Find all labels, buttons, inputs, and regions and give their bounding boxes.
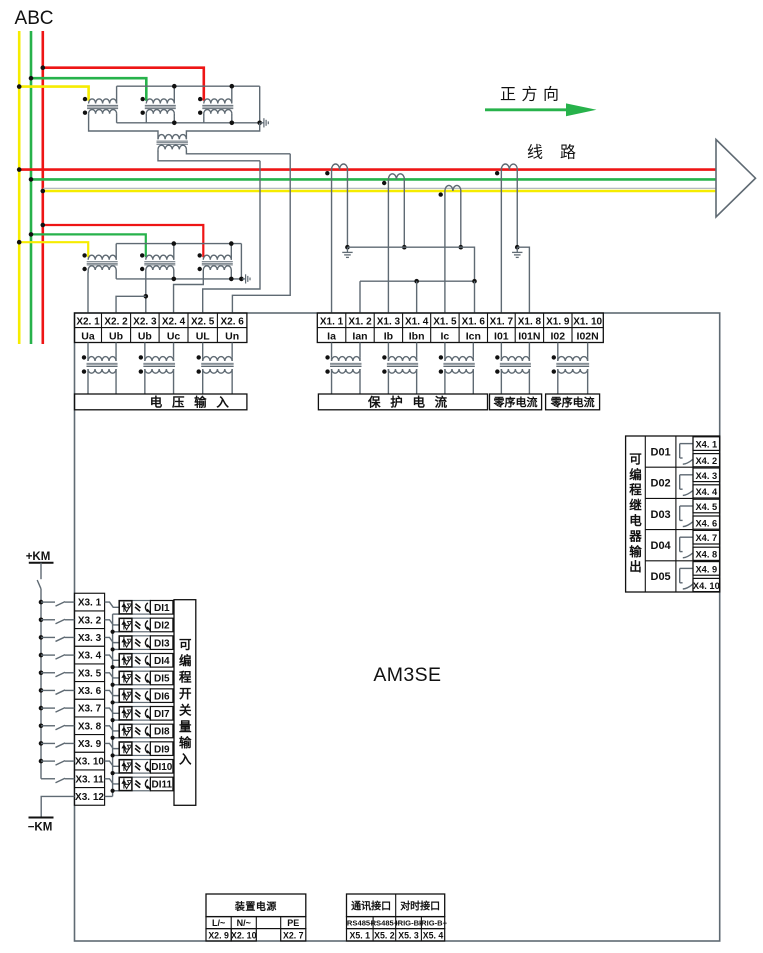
svg-text:Uc: Uc: [167, 330, 181, 342]
optocoupler DI10: [119, 760, 150, 774]
terminal X3.4: [74, 646, 104, 661]
svg-text:零序电流: 零序电流: [493, 395, 538, 409]
svg-text:X1. 6: X1. 6: [462, 316, 486, 327]
wire DI9 input: [105, 743, 120, 748]
svg-text:−KM: −KM: [28, 822, 53, 834]
svg-text:X1. 8: X1. 8: [518, 316, 542, 327]
wire DI common return vertical: [112, 614, 114, 796]
svg-text:装置电源: 装置电源: [234, 900, 277, 913]
terminal X3.7: [74, 699, 104, 714]
svg-text:X4. 5: X4. 5: [695, 502, 717, 512]
switch contact row 3: [41, 637, 74, 642]
junction DI11 return: [111, 789, 115, 793]
internal transformer CT I02: [552, 343, 590, 395]
junction T6 secondary: [172, 277, 177, 282]
terminal X3.12: [74, 788, 104, 803]
svg-text:程: 程: [179, 670, 192, 685]
svg-text:方: 方: [521, 86, 537, 104]
svg-text:D03: D03: [651, 509, 671, 521]
wire top green branch to PT2: [31, 78, 146, 101]
svg-text:对时接口: 对时接口: [400, 900, 440, 913]
svg-text:编: 编: [629, 467, 642, 482]
wire top-bank primary bus: [117, 85, 260, 87]
device power block 装置电源: [206, 894, 306, 917]
wire Un: aux PT to X2.6: [232, 154, 290, 313]
terminal X4.10: [693, 578, 720, 591]
relay D04: [651, 537, 693, 558]
svg-text:向: 向: [543, 86, 559, 104]
svg-text:X3. 9: X3. 9: [78, 739, 102, 750]
junction top green branch: [29, 76, 34, 81]
switch contact row 5: [41, 672, 74, 677]
junction DI3 return: [111, 647, 115, 651]
label box DI8: [150, 724, 173, 738]
power mid row cells: [206, 917, 306, 929]
voltage transformer T5 (busbar PT): [82, 244, 117, 279]
terminal X4.7: [693, 530, 720, 544]
wire Ub: T6 secondary to X2.3: [145, 272, 147, 313]
optocoupler DI1: [119, 601, 150, 615]
wire DI6 input: [105, 690, 120, 695]
svg-text:电: 电: [412, 395, 425, 410]
optocoupler DI3: [119, 636, 150, 650]
switch contact row 9: [41, 743, 74, 748]
svg-text:X2. 3: X2. 3: [133, 316, 157, 327]
junction T7 primary: [229, 241, 234, 246]
junction DI9 return: [111, 753, 115, 757]
voltage transformer T2 (line PT): [141, 86, 176, 123]
wire DI5 input: [105, 673, 120, 678]
terminal X4.3: [693, 468, 720, 482]
optocoupler DI9: [119, 742, 150, 756]
terminal X2.7: [281, 929, 306, 941]
terminal X4.9: [693, 562, 720, 576]
svg-text:X3. 1: X3. 1: [78, 598, 102, 609]
ground top-bank: [261, 118, 269, 127]
internal transformer PT Ua: [82, 343, 118, 395]
label box DI9: [150, 742, 173, 756]
wire Ia: CT1 to X1.1: [331, 170, 333, 313]
svg-text:X1. 5: X1. 5: [433, 316, 457, 327]
device AM3SE outline: [75, 313, 720, 941]
label box zero-seq current 2 零序电流: [546, 394, 600, 410]
svg-text:RS485-: RS485-: [347, 919, 373, 928]
wire CT2 return: [403, 179, 405, 247]
svg-text:器: 器: [628, 529, 642, 543]
wire DI10 input: [105, 761, 120, 766]
svg-text:Un: Un: [225, 330, 239, 342]
wire CT common line upper: [347, 247, 474, 281]
svg-text:DI2: DI2: [154, 621, 170, 632]
junction bus B tap: [29, 177, 34, 182]
svg-text:Ua: Ua: [81, 330, 95, 342]
label box DI11: [150, 777, 173, 791]
svg-text:X2. 9: X2. 9: [208, 930, 229, 940]
junction DI7 return: [111, 718, 115, 722]
svg-text:路: 路: [560, 144, 576, 162]
svg-text:L/~: L/~: [212, 918, 225, 928]
wire DI8 input: [105, 726, 120, 731]
wire DI1 return stub: [113, 613, 120, 615]
svg-text:DI10: DI10: [151, 762, 173, 773]
wire Ic: CT3 to X1.5: [444, 191, 446, 313]
wire yellow tap to measuring PT bank: [19, 242, 88, 257]
wire phase B vertical (green): [30, 31, 33, 344]
wire CT1 return: [346, 170, 348, 248]
wire DI5 return stub: [113, 684, 120, 686]
junction Icn: [472, 279, 477, 284]
terminal strip X3 frame: [74, 593, 104, 805]
relay D01: [651, 444, 693, 465]
wire Ian: to X1.2: [359, 281, 361, 313]
optocoupler DI8: [119, 724, 150, 738]
svg-text:通讯接口: 通讯接口: [351, 900, 391, 913]
junction T2 primary: [172, 84, 177, 89]
svg-text:IRIG-B+: IRIG-B+: [419, 919, 448, 928]
junction T2 secondary: [172, 121, 177, 126]
svg-text:X1. 1: X1. 1: [320, 316, 344, 327]
svg-text:DI6: DI6: [154, 691, 170, 702]
svg-text:X1. 9: X1. 9: [546, 316, 570, 327]
svg-text:输: 输: [629, 544, 642, 559]
svg-text:X5. 3: X5. 3: [398, 930, 419, 940]
terminal X4.5: [693, 499, 720, 513]
terminal X3.1: [78, 598, 102, 609]
current transformer CT2: [382, 174, 404, 185]
wire X3.12 to -KM: [41, 796, 74, 817]
wire DI11 return stub: [113, 790, 120, 792]
junction DI8 return: [111, 736, 115, 740]
svg-text:Ian: Ian: [352, 330, 367, 342]
junction DI6 return: [111, 700, 115, 704]
internal transformer CT Ia: [325, 343, 361, 395]
relay output block frame 可编程继电器输出: [626, 436, 720, 592]
arrow positive direction: [485, 103, 597, 116]
switch contact row 11: [41, 778, 74, 783]
svg-text:PE: PE: [287, 918, 299, 928]
optocoupler DI7: [119, 707, 150, 721]
junction Ibn: [414, 279, 419, 284]
svg-text:零序电流: 零序电流: [550, 395, 595, 409]
svg-text:编: 编: [179, 653, 192, 668]
terminal X4.1: [693, 437, 720, 451]
terminal X4.8: [693, 547, 720, 560]
internal transformer CT Ic: [439, 343, 475, 395]
wire top red branch to PT3: [43, 68, 204, 101]
label box programmable switch input 可编程开关量输入: [174, 600, 196, 806]
svg-text:B: B: [27, 8, 40, 29]
wire green tap to measuring PT bank: [31, 234, 146, 257]
junction DI2 return: [111, 630, 115, 634]
ground CT common: [342, 247, 352, 257]
current transformer CT1: [325, 164, 347, 175]
svg-text:量: 量: [179, 720, 192, 734]
wire bus phase C (yellow line): [43, 190, 716, 193]
svg-text:X4. 4: X4. 4: [695, 487, 718, 497]
relay D02: [651, 475, 693, 496]
junction top-bank ground node: [257, 121, 262, 126]
current transformer CT3: [439, 185, 461, 196]
svg-text:出: 出: [629, 559, 642, 574]
svg-text:X2. 6: X2. 6: [220, 316, 244, 327]
junction T6 primary: [172, 241, 177, 246]
junction DI feeder row 3: [39, 635, 44, 640]
relay D03: [651, 506, 693, 527]
svg-text:X3. 8: X3. 8: [78, 721, 102, 732]
svg-text:DI5: DI5: [154, 674, 170, 685]
svg-text:DI3: DI3: [154, 638, 170, 649]
svg-text:X2. 2: X2. 2: [104, 316, 128, 327]
svg-text:X4. 3: X4. 3: [695, 471, 717, 481]
svg-text:+KM: +KM: [26, 551, 51, 563]
wire bus phase A (red line): [19, 168, 716, 171]
svg-text:可: 可: [629, 452, 642, 466]
label box DI1: [150, 601, 173, 615]
svg-text:流: 流: [435, 395, 448, 410]
svg-text:Icn: Icn: [466, 330, 481, 342]
junction Ub branch: [144, 294, 149, 299]
svg-text:X4. 1: X4. 1: [695, 440, 717, 450]
junction DI feeder row 9: [39, 741, 44, 746]
terminal X3.3: [74, 629, 104, 644]
svg-text:X4. 8: X4. 8: [695, 550, 717, 560]
svg-text:A: A: [15, 8, 28, 29]
junction DI feeder row 1: [39, 600, 44, 605]
terminal X3.10: [74, 752, 104, 767]
junction T3 secondary: [230, 121, 235, 126]
terminal X2.9: [206, 929, 231, 941]
svg-text:X2. 1: X2. 1: [76, 316, 100, 327]
terminal X4.4: [693, 485, 720, 498]
svg-text:程: 程: [629, 482, 642, 497]
junction DI feeder row 5: [39, 670, 44, 675]
svg-text:X1. 10: X1. 10: [573, 316, 602, 327]
wire lower-bank secondary bus: [116, 278, 241, 280]
wire DI9 return stub: [113, 754, 120, 756]
internal transformer PT Ub: [139, 343, 175, 395]
comm mid row cells: [347, 917, 445, 929]
junction bus A tap: [17, 167, 22, 172]
wire DI2 return stub: [113, 631, 120, 633]
wire Ua: T5 secondary to X2.1: [87, 272, 89, 313]
wire CT4 return: [516, 170, 518, 248]
svg-text:X4. 9: X4. 9: [695, 564, 717, 574]
terminal X3.5: [74, 664, 104, 679]
svg-text:X1. 2: X1. 2: [348, 316, 372, 327]
wire DI6 return stub: [113, 701, 120, 703]
switch contact row 8: [41, 725, 74, 730]
relay D05: [651, 568, 693, 589]
svg-text:Ub: Ub: [138, 330, 152, 342]
wire top yellow branch to PT1: [19, 87, 88, 101]
svg-text:X4. 10: X4. 10: [693, 581, 720, 591]
svg-text:X3. 3: X3. 3: [78, 633, 102, 644]
wire DI4 input: [105, 655, 120, 660]
svg-text:关: 关: [179, 702, 192, 717]
svg-text:压: 压: [172, 396, 185, 410]
terminal strip X1 current inputs: [317, 313, 603, 343]
label programmable relay output vertical text: [628, 452, 642, 574]
optocoupler DI6: [119, 689, 150, 703]
junction top red branch: [41, 65, 46, 70]
wire I01: CT4 to X1.7: [500, 170, 502, 313]
label box DI2: [150, 618, 173, 632]
svg-text:DI9: DI9: [154, 744, 170, 755]
wire lower-bank primary bus: [116, 243, 241, 245]
wire CT neutral line lower: [360, 280, 475, 282]
svg-text:开: 开: [179, 687, 192, 701]
terminal strip X2 voltage inputs: [75, 313, 247, 343]
voltage transformer T4 (aux line PT): [157, 135, 188, 152]
wire Ibn: to X1.4: [416, 281, 418, 313]
label box DI6: [150, 689, 173, 703]
junction CT4 return / ground: [515, 245, 520, 250]
ground lower-bank: [242, 274, 250, 283]
junction DI feeder row 7: [39, 706, 44, 711]
svg-text:X4. 7: X4. 7: [695, 533, 717, 543]
svg-text:X3. 6: X3. 6: [78, 686, 102, 697]
junction top yellow branch: [17, 84, 22, 89]
switch contact row 2: [41, 619, 74, 624]
current transformer CT4: [495, 164, 517, 175]
terminal X3.2: [74, 611, 104, 626]
junction CT2 return: [402, 245, 407, 250]
svg-text:I01: I01: [494, 330, 509, 342]
svg-text:X2. 4: X2. 4: [162, 316, 186, 327]
wire Ub branch to X2.2: [116, 296, 146, 313]
terminal X3.6: [74, 682, 104, 697]
svg-text:Ia: Ia: [327, 330, 336, 342]
svg-text:C: C: [40, 8, 54, 29]
junction T3 primary: [230, 84, 235, 89]
svg-text:X2. 10: X2. 10: [231, 930, 257, 940]
switch contact row 10: [41, 761, 74, 766]
bar +KM rail: [29, 562, 54, 564]
voltage transformer T7 (busbar PT): [198, 244, 233, 279]
svg-text:X5. 4: X5. 4: [423, 930, 444, 940]
label box DI4: [150, 654, 173, 668]
wire DI3 return stub: [113, 648, 120, 650]
internal transformer PT UL: [197, 343, 234, 395]
bar -KM rail: [29, 817, 54, 819]
switch contact row 1: [41, 602, 74, 607]
svg-text:X3. 10: X3. 10: [75, 757, 104, 768]
svg-text:N/~: N/~: [237, 918, 251, 928]
ground CT4: [512, 247, 522, 257]
wire DI8 return stub: [113, 737, 120, 739]
voltage transformer T1 (line PT): [83, 86, 118, 123]
internal transformer CT I01: [495, 343, 531, 395]
wire DI11 input: [105, 779, 120, 784]
voltage transformer T6 (busbar PT): [140, 244, 175, 279]
terminal X3.8: [74, 717, 104, 732]
voltage transformer T3 (line PT): [198, 86, 233, 123]
svg-text:I02: I02: [550, 330, 565, 342]
svg-text:DI8: DI8: [154, 727, 170, 738]
label box DI10: [150, 760, 173, 774]
wire UL: aux PT to X2.5: [203, 161, 260, 313]
comm port block 通讯接口 对时接口: [347, 894, 445, 917]
svg-text:X5. 2: X5. 2: [374, 930, 395, 940]
wire DI10 return stub: [113, 772, 120, 774]
svg-text:X2. 7: X2. 7: [283, 930, 304, 940]
wire DI2 input: [105, 620, 120, 625]
wire top-bank bus right corner: [259, 86, 261, 123]
svg-text:X3. 12: X3. 12: [75, 792, 104, 803]
wire top-bank secondary bus: [117, 122, 260, 124]
wire lower-bank bus right corner: [240, 244, 242, 279]
svg-text:X4. 6: X4. 6: [695, 518, 717, 528]
svg-text:DI1: DI1: [154, 603, 170, 614]
svg-text:D05: D05: [651, 571, 671, 583]
svg-text:DI7: DI7: [154, 709, 170, 720]
junction CT3 return: [459, 245, 464, 250]
label box zero-seq current 1 零序电流: [490, 394, 542, 410]
junction green tap: [29, 232, 34, 237]
svg-text:可: 可: [179, 638, 192, 652]
junction DI feeder row 10: [39, 759, 44, 764]
junction DI feeder row 8: [39, 723, 44, 728]
svg-text:Ic: Ic: [441, 330, 450, 342]
label box DI7: [150, 707, 173, 721]
wire bus neutral (thin grey line): [43, 187, 716, 189]
svg-text:X1. 4: X1. 4: [405, 316, 429, 327]
svg-text:电: 电: [150, 395, 163, 410]
svg-text:DI11: DI11: [152, 780, 173, 791]
svg-text:X3. 11: X3. 11: [75, 774, 104, 785]
terminal X2.10: [231, 929, 257, 941]
optocoupler DI11: [119, 777, 150, 791]
wire -KM return from X3.12: [105, 795, 113, 797]
terminal X3.11: [74, 770, 104, 785]
svg-text:D04: D04: [651, 540, 672, 552]
svg-text:I02N: I02N: [577, 330, 599, 342]
wire I01N: to X1.8: [517, 247, 529, 313]
junction lower-bank ground node: [239, 277, 244, 282]
svg-text:电: 电: [629, 513, 642, 528]
label box voltage input 电压输入: [75, 394, 247, 410]
wire DI7 return stub: [113, 719, 120, 721]
svg-text:X3. 4: X3. 4: [78, 651, 102, 662]
wire CT3 return: [460, 191, 462, 247]
terminal X4.2: [693, 454, 720, 467]
wire DI4 return stub: [113, 666, 120, 668]
wire DI7 input: [105, 708, 120, 713]
junction CT1 return / ground: [345, 245, 350, 250]
wire red tap to measuring PT bank: [43, 225, 204, 257]
junction DI feeder row 2: [39, 617, 44, 622]
label box DI5: [150, 671, 173, 685]
switch contact row 4: [41, 655, 74, 660]
svg-text:UL: UL: [196, 330, 211, 342]
wire +KM feeder with switch: [37, 563, 41, 779]
svg-text:AM3SE: AM3SE: [373, 664, 441, 686]
junction DI10 return: [111, 771, 115, 775]
svg-text:入: 入: [216, 396, 229, 410]
wire bus phase B (green line): [31, 178, 716, 181]
wire phase A vertical (yellow): [18, 31, 21, 344]
svg-text:入: 入: [179, 753, 192, 767]
svg-text:输: 输: [194, 395, 207, 410]
junction DI feeder row 4: [39, 653, 44, 658]
line arrow head (feeder): [716, 140, 756, 218]
wire aux PT secondary left (UL): [158, 152, 260, 161]
optocoupler DI2: [119, 618, 150, 632]
wire aux PT primary right to ground node: [186, 123, 259, 139]
wire Ib: CT2 to X1.3: [387, 179, 389, 313]
svg-text:继: 继: [629, 498, 642, 513]
junction T7 secondary: [229, 277, 234, 282]
